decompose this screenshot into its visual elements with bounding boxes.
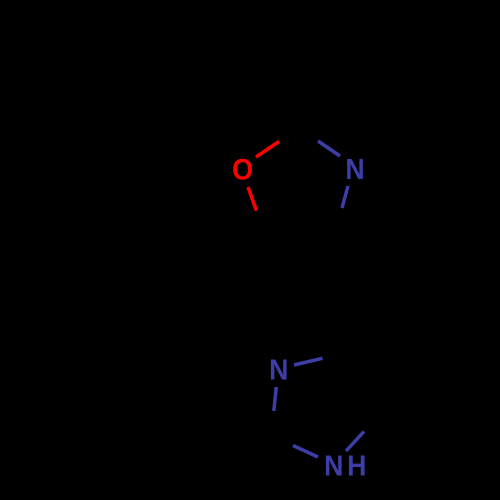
wire N1'-C2' (blue half-bond, imidazolidine left-down) bbox=[274, 387, 277, 411]
svg-text:O: O bbox=[232, 153, 253, 186]
svg-text:H: H bbox=[347, 450, 366, 482]
wire C2-N3 (blue half-bond, oxazoline ring top-right) bbox=[318, 141, 340, 156]
wire N3-C4 (blue half-bond, oxazoline ring right-down) bbox=[342, 186, 348, 208]
wire N1'-Ca (blue half-bond, imidazolidine top-right) bbox=[294, 358, 323, 365]
svg-text:N: N bbox=[269, 354, 288, 386]
wire NH-Cb (blue half-bond up-right from NH) bbox=[346, 432, 364, 452]
svg-text:N: N bbox=[324, 450, 343, 482]
svg-text:N: N bbox=[345, 153, 364, 185]
wire O-C5 (red half-bond, oxazoline ring left-down) bbox=[248, 187, 256, 211]
wire C2'-NH (blue half-bond into NH) bbox=[293, 446, 318, 458]
wire O-C2 (red half-bond, oxazoline ring top-left) bbox=[256, 142, 279, 158]
